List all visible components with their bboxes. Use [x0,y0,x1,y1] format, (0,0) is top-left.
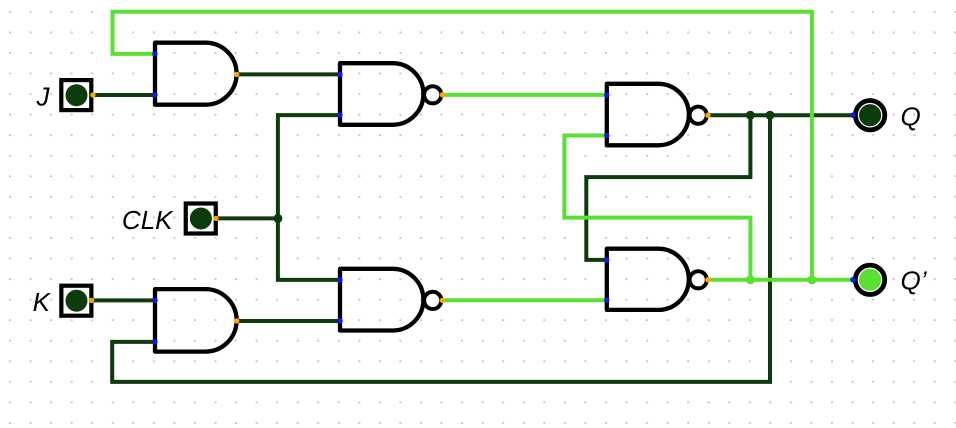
wire U6 output to node Q' [708,278,853,282]
junction Q net 1 [746,111,755,120]
input button K [61,286,94,316]
wire CLK junction up to U2 input B [278,115,340,218]
output Q [850,101,885,130]
wire Q feedback to U6 input A [586,115,750,260]
and-gate U1 [152,43,239,105]
wire U2 output to U5 input A [442,93,606,97]
input button CLK [186,204,219,234]
and-gate U4 [152,289,239,352]
wire CLK junction down to U3 input A [278,218,340,280]
junction Q' net 1 [746,275,755,284]
junction Q' net 2 [807,275,816,284]
wire U4 output to U3 input B [237,319,340,323]
svg-text:J: J [36,81,51,111]
nand-gate U3 [337,269,445,331]
svg-text:K: K [33,287,52,317]
nand-gate U5 [604,84,711,146]
svg-text:Q’: Q’ [901,265,928,295]
junction CLK [273,214,282,223]
nand-gate U6 [604,249,711,310]
svg-text:Q: Q [901,101,921,131]
svg-text:CLK: CLK [122,205,174,235]
wire Q feedback to U4 input B [112,115,770,382]
input button J [61,80,95,110]
wire U3 output to U6 input B [442,298,606,302]
wire CLK to junction [216,216,278,220]
wire J input to U1 [93,93,155,97]
wire Q' feedback to U5 input B [564,136,750,280]
wire U5 output to node Q [708,113,853,117]
wire U1 output to U2 input A [237,72,340,76]
wire K input to U4 [92,298,156,302]
wire Q' feedback to U1 input A [113,12,812,280]
nand-gate U2 [337,63,445,125]
output Q' [850,265,885,294]
junction Q net 2 [766,111,775,120]
